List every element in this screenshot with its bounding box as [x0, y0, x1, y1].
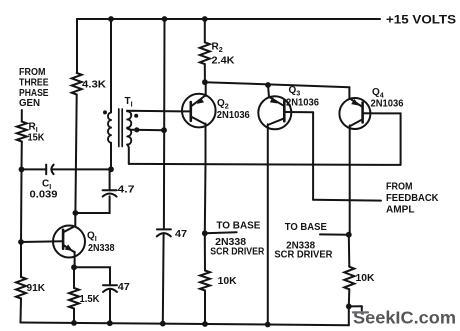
node rail junction 47 cap: [107, 320, 113, 326]
node Q1 collector junction: [73, 210, 79, 216]
svg-text:+15 VOLTS: +15 VOLTS: [386, 13, 456, 27]
svg-text:4.7: 4.7: [118, 185, 136, 196]
wire gen input down to R1: [21, 110, 23, 122]
resistor 10K middle: [200, 271, 210, 291]
node junction T1 primary on +15 rail: [108, 16, 114, 22]
wire down to 91K: [20, 242, 22, 277]
wire feedback horizontal: [313, 199, 381, 202]
T1 core: [119, 109, 122, 147]
svg-text:R2: R2: [212, 42, 223, 55]
node junction R2 on +15 rail: [202, 16, 208, 22]
svg-text:4.3K: 4.3K: [82, 80, 107, 91]
node TO BASE tap 1: [202, 230, 208, 236]
resistor R1 15K: [17, 122, 27, 142]
svg-text:AMPL: AMPL: [386, 205, 415, 216]
svg-text:THREE: THREE: [19, 77, 49, 88]
wire TO BASE stub 2: [320, 233, 349, 235]
wire Q1 collector node to 4.7 cap: [75, 196, 109, 213]
resistor 4.3K: [72, 73, 82, 95]
svg-text:Q2: Q2: [217, 98, 229, 111]
svg-text:2N1036: 2N1036: [371, 98, 404, 109]
wire bottom common rail: [21, 323, 349, 326]
svg-text:2.4K: 2.4K: [212, 56, 236, 67]
T1 secondary winding bottom half: [127, 128, 131, 144]
svg-text:47: 47: [118, 282, 130, 293]
node C1 left junction: [19, 167, 25, 173]
wire Q3 base to feedback corner: [312, 112, 314, 200]
capacitor C1 0.039: [22, 168, 47, 170]
svg-text:2N1036: 2N1036: [286, 97, 319, 108]
wire T1 secondary top to Q2 base: [127, 110, 182, 113]
capacitor 47 (bottom left): [103, 284, 117, 286]
wire +15V top rail: [77, 18, 380, 20]
resistor 91K: [16, 277, 26, 299]
T1 phasing dot secondary: [134, 114, 138, 118]
svg-text:15K: 15K: [28, 133, 46, 144]
wire TO BASE stub 1: [205, 232, 237, 233]
node R2 bottom / Q2 emitter junction: [202, 79, 208, 85]
svg-text:91K: 91K: [27, 283, 46, 294]
wire R1 to C1 node: [21, 142, 23, 170]
node Q3 emitter junction: [265, 82, 271, 88]
wire T1 center tap: [127, 128, 164, 130]
wire left drop from rail to 4.3K: [76, 19, 78, 73]
svg-text:FROM: FROM: [19, 67, 46, 78]
capacitor 4.7: [103, 194, 117, 197]
wire down left to Q1 base node: [20, 169, 23, 242]
svg-text:47: 47: [175, 229, 187, 240]
node rail junction 1.5K: [71, 320, 77, 326]
resistor R2 2.4K: [204, 19, 206, 42]
transistor Q1 2N338: [53, 226, 85, 258]
svg-text:2N338: 2N338: [88, 243, 115, 254]
svg-text:SCR DRIVER: SCR DRIVER: [274, 250, 333, 261]
svg-text:TI: TI: [125, 96, 133, 109]
T1 primary winding: [108, 112, 111, 142]
svg-text:1.5K: 1.5K: [80, 294, 101, 305]
transistor Q2 2N1036: [182, 94, 216, 128]
svg-text:Q3: Q3: [289, 85, 301, 98]
wire T1 primary feed: [110, 19, 112, 112]
wire T1 secondary bottom lead: [127, 145, 129, 164]
svg-text:FROM: FROM: [386, 181, 413, 192]
svg-text:FEEDBACK: FEEDBACK: [386, 193, 439, 204]
node tap dot at winding: [134, 127, 139, 132]
node TO BASE tap 2: [346, 232, 352, 238]
T1 secondary winding top half: [127, 111, 131, 127]
wire emitter bus to Q4: [205, 82, 350, 87]
node Q1 base junction: [18, 239, 24, 245]
svg-text:TO BASE: TO BASE: [216, 220, 260, 231]
wire stub right of 10K bottom: [349, 305, 362, 307]
node tap junction on riser: [161, 127, 167, 133]
node rail junction x163: [160, 321, 166, 327]
svg-text:QI: QI: [87, 231, 97, 244]
svg-text:SeekIC.com: SeekIC.com: [353, 308, 456, 328]
svg-text:SCR DRIVER: SCR DRIVER: [210, 247, 265, 258]
wire 10K bottom to rail corner: [348, 306, 350, 325]
wire riser x164 rail to 47 cap to bottom: [163, 19, 166, 229]
node junction x165 riser on +15 rail: [162, 16, 168, 22]
resistor 10K right: [348, 235, 351, 267]
svg-text:GEN: GEN: [19, 98, 40, 109]
svg-text:PHASE: PHASE: [19, 88, 49, 99]
node 10K bottom junction: [346, 304, 352, 310]
transistor Q3 2N1036: [258, 96, 291, 129]
node rail junction 10K middle: [202, 321, 208, 327]
svg-text:0.039: 0.039: [30, 190, 58, 201]
capacitor 47 (middle): [157, 228, 171, 230]
node C1 right junction: [108, 166, 114, 172]
resistor 1.5K: [73, 267, 75, 288]
wire 91K to bottom rail corner: [20, 299, 23, 323]
wire emitter node to 47 cap: [74, 267, 110, 285]
wire 4.3K down to Q1 collector node: [75, 95, 76, 214]
transistor Q4 2N1036: [339, 98, 370, 129]
node Q1 emitter junction: [71, 264, 77, 270]
svg-text:10K: 10K: [218, 276, 238, 287]
T1 phasing dot primary: [103, 110, 107, 114]
wire T1 primary bottom to C1 node: [110, 143, 112, 170]
svg-text:TO BASE: TO BASE: [285, 222, 327, 233]
wire secondary-bottom bus to Q4 base riser: [129, 164, 401, 165]
node rail junction Q3 collector: [265, 322, 271, 328]
svg-text:10K: 10K: [356, 273, 376, 284]
wire Q2 collector lower / 10K middle branch: [204, 164, 207, 271]
svg-text:2N1036: 2N1036: [217, 110, 250, 121]
wire Q4 base riser: [400, 113, 402, 164]
